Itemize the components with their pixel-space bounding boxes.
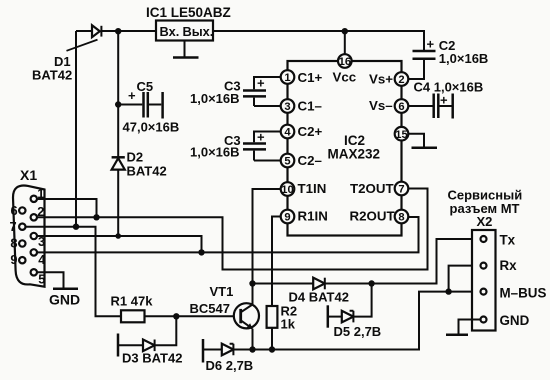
svg-text:Tx: Tx [500, 232, 516, 247]
node: Tx clamp node [368, 280, 374, 286]
diode D3 [143, 340, 155, 352]
wire: pin3 TxD row [37, 236, 202, 252]
node: rail junction above Vcc [342, 28, 348, 34]
capacitor C3 (second) [243, 132, 282, 161]
ground under IC1 [173, 41, 199, 58]
svg-text:C4 1,0×16В: C4 1,0×16В [414, 80, 484, 95]
wire: D2 anode down to pin3 row [117, 170, 119, 236]
svg-text:6: 6 [11, 203, 18, 218]
node: R2 on rail [269, 346, 275, 352]
X1 pin 4 [31, 249, 47, 267]
capacitor C4 [434, 94, 452, 119]
svg-text:6: 6 [398, 101, 404, 113]
connector X1 shell [13, 186, 45, 287]
ground bar D3 [117, 334, 120, 357]
wire: Vcc drop to pin 16 [344, 31, 346, 55]
voltage regulator IC1 [156, 21, 213, 41]
svg-text:8: 8 [398, 212, 404, 224]
IC2 pin 15 [395, 127, 409, 141]
wire: junction down to C5 node [117, 31, 119, 104]
label C5 [123, 79, 180, 135]
svg-text:10: 10 [281, 184, 293, 196]
node: emitter on rail [249, 346, 255, 352]
ground bar right of C4 [451, 94, 454, 119]
X1 pin 2 [31, 204, 45, 221]
svg-text:5: 5 [284, 156, 290, 168]
svg-text:Вх.: Вх. [160, 24, 180, 39]
svg-text:15: 15 [395, 129, 407, 141]
capacitor C2 [413, 51, 436, 59]
svg-text:1,0×16В: 1,0×16В [190, 145, 240, 160]
svg-text:Vs+: Vs+ [369, 72, 393, 87]
wire: D5 branch drop [353, 284, 371, 317]
svg-text:D5 2,7В: D5 2,7В [334, 324, 382, 339]
wire: Vs+ to C2 [407, 60, 424, 80]
capacitor C5 [118, 92, 161, 118]
ground bar pin15 [412, 146, 438, 149]
X2 pin GND [481, 313, 530, 328]
IC2 pin 2 [395, 72, 409, 86]
resistor R1 [121, 310, 145, 322]
svg-text:9: 9 [10, 252, 17, 267]
zener D5 [342, 311, 354, 323]
svg-text:BC547: BC547 [190, 301, 230, 316]
svg-text:2: 2 [398, 74, 404, 86]
node: D1 tap on RTS [73, 224, 79, 230]
svg-text:+: + [440, 93, 448, 108]
svg-text:BAT42: BAT42 [32, 68, 72, 83]
node: C5 junction [115, 101, 121, 107]
X1 pin 8 [10, 236, 25, 251]
wire: Vs- to C4 [407, 105, 432, 107]
svg-text:D4 BAT42: D4 BAT42 [289, 290, 349, 305]
label D1 [32, 54, 72, 83]
svg-text:1k: 1k [281, 317, 296, 332]
svg-text:X1: X1 [20, 167, 37, 183]
wire: D3 cathode up to base node [155, 316, 177, 345]
IC2 pin 4 [281, 125, 295, 139]
svg-text:X2: X2 [477, 214, 493, 229]
IC2 pin 16 [338, 54, 352, 68]
svg-text:IC1 LE50ABZ: IC1 LE50ABZ [146, 5, 231, 20]
svg-text:+: + [257, 130, 265, 145]
svg-text:D2: D2 [127, 150, 144, 165]
ground bar D6 [202, 339, 205, 363]
label C3 first [190, 79, 241, 107]
wire: pin7 RTS row [26, 227, 122, 317]
wire: RTS riser to D1 row [75, 31, 77, 227]
label D2 [127, 150, 167, 179]
wire: R2 bottom to rail [271, 328, 273, 350]
label C3 second [190, 133, 241, 160]
IC2 pin 1 [281, 70, 295, 84]
wire: pin1 to pin2 row [37, 199, 97, 217]
IC2 pin 6 [395, 99, 409, 113]
svg-text:+: + [427, 37, 435, 52]
wire: M-BUS rail to X2 [233, 292, 480, 350]
capacitor C3 (first) [243, 77, 282, 106]
svg-text:7: 7 [10, 219, 17, 234]
X2 pin Tx [481, 232, 516, 247]
svg-text:8: 8 [10, 236, 17, 251]
svg-text:GND: GND [500, 313, 530, 328]
svg-text:9: 9 [284, 212, 290, 224]
ground bar X2 [446, 334, 468, 337]
X1 pin 5 [31, 269, 46, 286]
wire: Rx tap riser [449, 266, 481, 292]
IC2 pin 9 [281, 210, 295, 224]
svg-text:D6 2,7В: D6 2,7В [206, 358, 254, 373]
diode D1 [92, 25, 101, 37]
svg-text:T1IN: T1IN [298, 181, 327, 196]
wire: D4 anode from collector node [253, 283, 314, 285]
X1 pin 9 [10, 252, 25, 267]
resistor R2 [267, 306, 278, 328]
ground bar right of C5 [161, 92, 164, 119]
svg-text:BAT42: BAT42 [127, 164, 167, 179]
leader line D1 [67, 40, 98, 51]
IC2 pin 10 [281, 182, 295, 196]
wire: D1 anode segment [76, 30, 92, 32]
label C2 [439, 38, 489, 66]
svg-text:C2+: C2+ [298, 124, 323, 139]
node: pins 1-2 tie [93, 214, 99, 220]
IC2 pin 3 [281, 99, 295, 113]
svg-text:3: 3 [284, 101, 290, 113]
svg-text:Вых.: Вых. [183, 24, 214, 39]
wire: Tx node to X2 Tx [372, 239, 481, 284]
svg-text:47,0×16В: 47,0×16В [123, 120, 180, 135]
svg-text:C1–: C1– [298, 99, 322, 114]
svg-text:GND: GND [49, 292, 80, 308]
wire: D3 anode lead [118, 344, 143, 346]
diode D2 (zener-less, pointing up) [112, 157, 125, 169]
transistor VT1 [234, 303, 259, 329]
svg-text:1,0×16В: 1,0×16В [190, 91, 240, 106]
svg-text:Vcc: Vcc [333, 70, 357, 85]
zener D6 [222, 344, 234, 356]
svg-text:R2OUT: R2OUT [350, 209, 395, 224]
wire: rail left segment [203, 349, 222, 351]
svg-text:+: + [257, 76, 265, 91]
node: pin3 joins pin4 line [198, 249, 204, 255]
svg-text:Vs–: Vs– [369, 98, 393, 113]
svg-text:R1IN: R1IN [298, 209, 328, 224]
wire: R1IN riser to R2 [272, 217, 282, 307]
wire: C5 node down to D2 [117, 105, 119, 158]
svg-text:C1+: C1+ [298, 70, 323, 85]
svg-text:VT1: VT1 [210, 284, 234, 299]
ground bar X1 pin5 [53, 287, 78, 290]
IC2 pin 8 [395, 210, 409, 224]
svg-text:4: 4 [38, 252, 46, 267]
node: D2 on TxD line [115, 233, 121, 239]
ground bar D5 [327, 305, 330, 327]
svg-text:+: + [128, 88, 136, 103]
svg-text:16: 16 [339, 56, 351, 68]
node: Rx tap on M-BUS [445, 288, 451, 294]
X2 pin M-BUS [481, 285, 547, 300]
label R2 1k [281, 304, 298, 332]
wire: R1 to base node [145, 315, 240, 317]
IC2 MAX232 body [288, 61, 402, 236]
wire: D1 cathode to IC1 input [101, 30, 156, 32]
X1 pin 3 [31, 233, 46, 249]
node: collector / D4 junction [249, 280, 255, 286]
svg-text:4: 4 [284, 127, 291, 139]
wire: D4 cathode to Tx node [325, 283, 372, 285]
svg-text:5: 5 [38, 272, 45, 287]
svg-text:7: 7 [398, 184, 404, 196]
svg-text:1,0×16В: 1,0×16В [439, 51, 489, 66]
svg-text:Rx: Rx [500, 258, 518, 273]
node: D1 cathode junction [115, 28, 121, 34]
wire: collector riser to T1IN [253, 189, 283, 305]
svg-text:C5: C5 [137, 79, 154, 94]
svg-text:R1 47k: R1 47k [111, 294, 154, 309]
svg-text:1: 1 [284, 72, 290, 84]
wire: D5 anode lead [329, 316, 342, 318]
svg-text:T2OUT: T2OUT [350, 181, 394, 196]
svg-text:C2–: C2– [298, 153, 322, 168]
connector X2 [472, 230, 496, 331]
IC2 pin 5 [281, 154, 295, 168]
wire: X2 GND to ground [459, 320, 481, 335]
X1 pin 1 [31, 186, 45, 202]
wire: IC1 output rail to C2 [213, 31, 424, 50]
wire: pin2 row to T2OUT riser [37, 189, 428, 270]
svg-text:MAX232: MAX232 [328, 146, 381, 161]
X2 pin Rx [481, 258, 518, 273]
IC2 pin 7 [395, 182, 409, 196]
diode D4 [313, 278, 325, 290]
wire: emitter to rail [252, 329, 254, 350]
wire: pin15 to ground [407, 134, 424, 147]
wire: pin4 long line to R2IN pin8 [37, 217, 419, 252]
node: base node [173, 313, 179, 319]
svg-text:M–BUS: M–BUS [500, 285, 547, 300]
svg-text:D3 BAT42: D3 BAT42 [122, 351, 182, 366]
X1 pin 6 [11, 203, 26, 218]
wire: pin5 to GND [37, 272, 64, 287]
X1 pin 7 [10, 219, 26, 234]
label VT1 [190, 284, 234, 316]
